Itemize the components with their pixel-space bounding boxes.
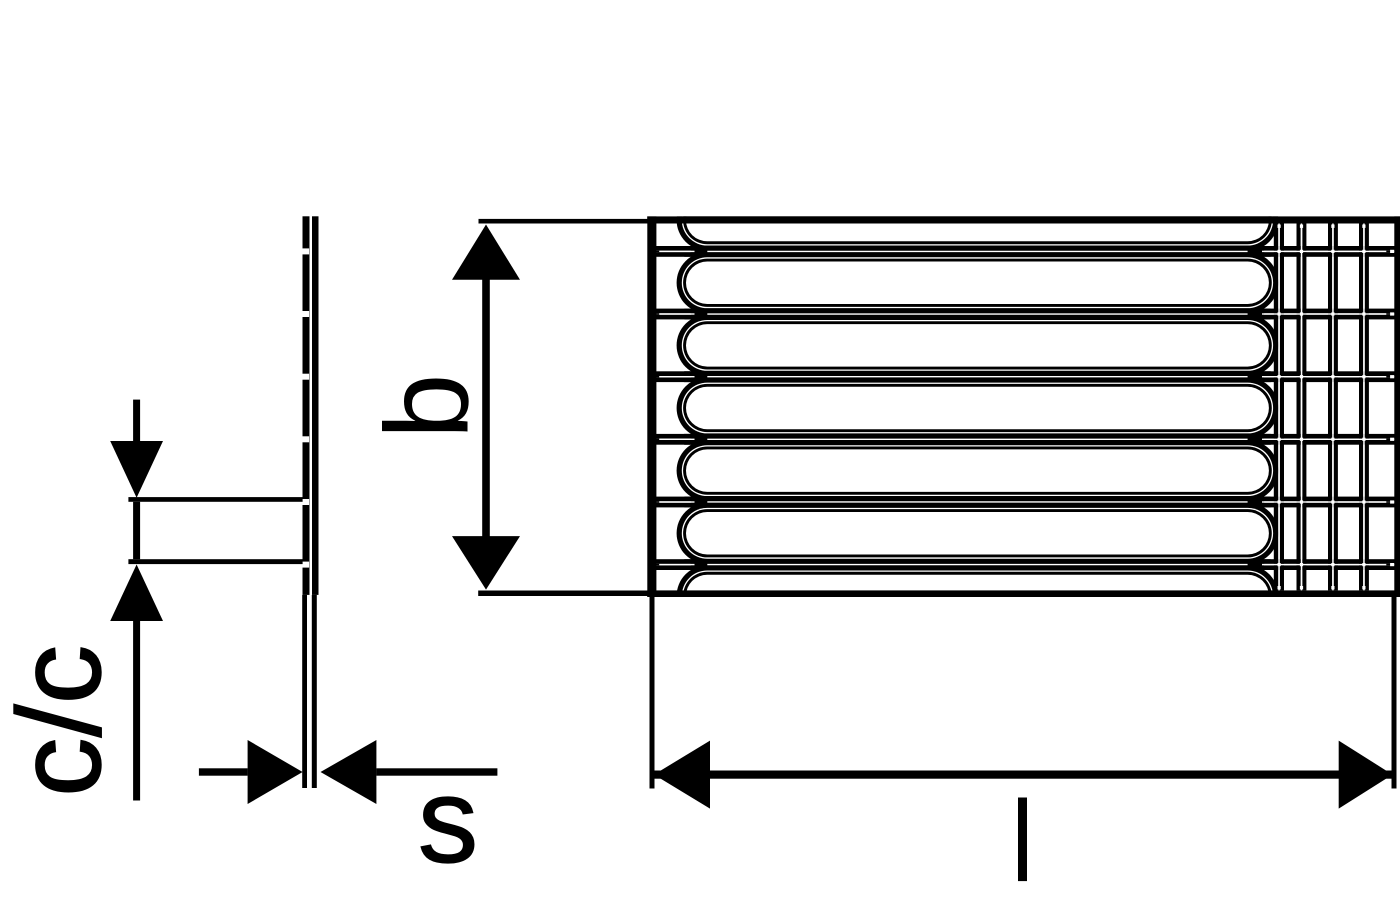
svg-text:b: b	[362, 373, 494, 439]
svg-text:s: s	[418, 752, 479, 888]
svg-text:c/c: c/c	[0, 645, 126, 797]
